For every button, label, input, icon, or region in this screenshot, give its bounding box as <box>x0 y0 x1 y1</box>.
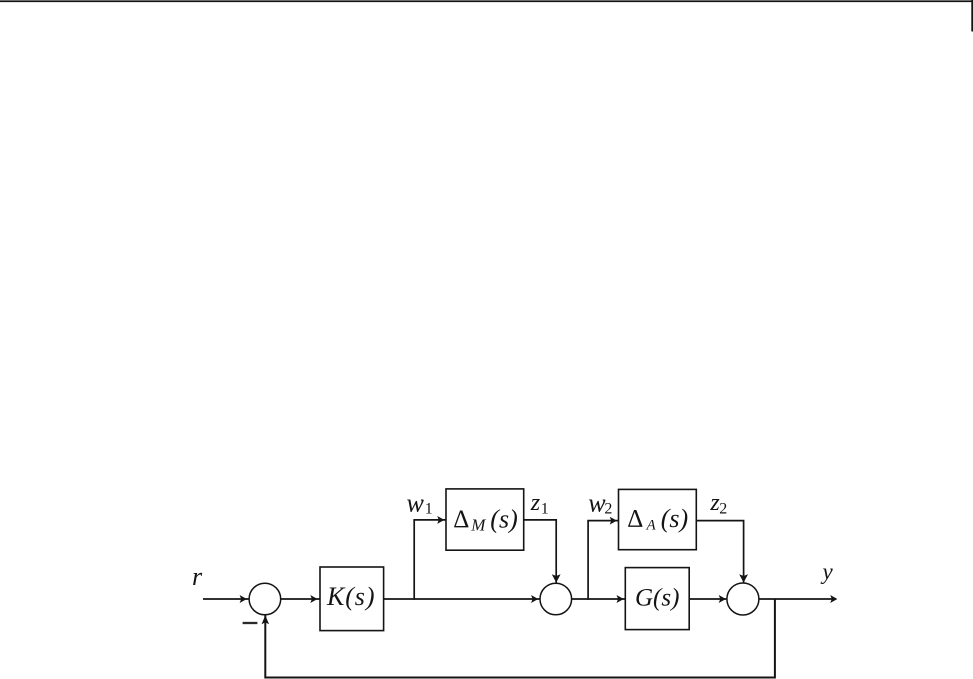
label z2 <box>709 490 727 518</box>
top rule <box>0 0 973 2</box>
svg-text:2: 2 <box>604 501 612 518</box>
page edge rule (top right) <box>971 0 973 32</box>
svg-text:1: 1 <box>541 501 549 518</box>
node branch junction to w1 <box>413 520 415 600</box>
label w1 <box>407 489 433 518</box>
svg-text:Δ: Δ <box>627 505 643 532</box>
wire S3 to output y <box>759 595 838 603</box>
svg-text:2: 2 <box>719 501 727 518</box>
svg-text:G(s): G(s) <box>635 585 679 612</box>
block Delta_M(s) <box>446 489 524 550</box>
svg-text:y: y <box>821 559 834 584</box>
label z1 <box>530 490 549 518</box>
summing junction S2 <box>540 583 572 615</box>
wire G(s) to summing junction S3 <box>689 595 727 603</box>
node y (output label) <box>821 559 834 584</box>
svg-text:r: r <box>192 562 203 591</box>
svg-text:Δ: Δ <box>453 506 469 533</box>
block K(s) <box>320 567 384 631</box>
feedback wire from output to S1 <box>262 599 775 678</box>
svg-text:z: z <box>530 490 541 516</box>
svg-text:w: w <box>407 489 425 518</box>
node r (input label) <box>192 562 203 591</box>
svg-text:A: A <box>646 518 657 534</box>
wire w1 into Delta_M(s) <box>413 516 445 524</box>
wire S2 to G(s) <box>572 595 626 603</box>
label w2 <box>588 489 612 518</box>
wire Delta_M(s) to summing junction S2 <box>524 520 561 584</box>
block Delta_A(s) <box>619 489 697 549</box>
wire w2 into Delta_A(s) <box>587 517 618 525</box>
wire Delta_A(s) to summing junction S3 <box>696 521 748 584</box>
svg-text:1: 1 <box>425 501 433 518</box>
summing junction S3 <box>727 583 759 615</box>
minus sign at S1 <box>243 622 258 624</box>
svg-text:(s): (s) <box>661 504 688 533</box>
node branch junction to w2 <box>587 521 589 600</box>
summing junction S1 <box>249 583 281 615</box>
svg-text:M: M <box>470 516 486 535</box>
block G(s) <box>625 568 689 630</box>
svg-text:(s): (s) <box>490 505 517 534</box>
wire K(s) to summing junction S2 <box>384 595 541 603</box>
wire S1 to K(s) <box>281 595 320 603</box>
svg-text:K(s): K(s) <box>326 582 375 611</box>
wire r to summing junction S1 <box>203 595 249 603</box>
